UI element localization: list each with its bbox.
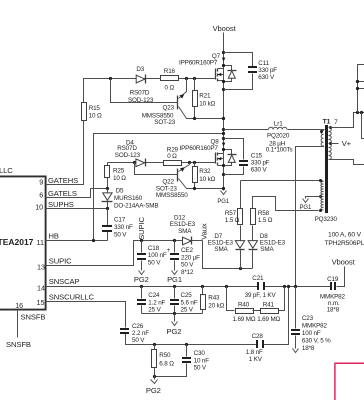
svg-text:RS07D: RS07D	[117, 145, 137, 152]
svg-text:0 Ω: 0 Ω	[165, 85, 175, 92]
svg-text:SNSCURLLC: SNSCURLLC	[49, 293, 95, 302]
svg-text:1.69 MΩ: 1.69 MΩ	[233, 316, 256, 323]
IC U1 TEA2017	[0, 176, 46, 309]
svg-text:C30: C30	[194, 350, 206, 357]
capacitor C21	[245, 275, 277, 299]
svg-text:630 V, 5 %: 630 V, 5 %	[302, 337, 331, 344]
svg-text:100 nF: 100 nF	[148, 252, 167, 259]
svg-text:50 V: 50 V	[148, 259, 161, 266]
svg-text:R16: R16	[164, 68, 176, 75]
svg-text:SOD-123: SOD-123	[115, 152, 141, 159]
pin 9 GATEHS	[39, 176, 78, 186]
svg-text:220 µF: 220 µF	[181, 254, 200, 261]
transistor Q23	[111, 79, 224, 127]
svg-text:R41: R41	[263, 302, 275, 309]
pin 15 SNSCURLLC	[37, 293, 95, 307]
resistor R58	[251, 197, 319, 241]
svg-text:18*8: 18*8	[302, 345, 315, 352]
svg-text:R43: R43	[208, 295, 220, 302]
node Q23 base tap dot	[109, 77, 112, 80]
wire secondary top out	[329, 113, 364, 128]
node secondary out dots	[356, 111, 359, 114]
resistor R41	[253, 287, 285, 323]
svg-text:18*8: 18*8	[327, 307, 340, 314]
svg-text:DO-214AA-SMB: DO-214AA-SMB	[114, 202, 158, 209]
transistor Q8 IPP60R160P7	[180, 137, 237, 176]
capacitor C11	[224, 53, 278, 90]
svg-text:C18: C18	[148, 245, 160, 252]
svg-text:SNSFB: SNSFB	[6, 340, 31, 349]
svg-text:R25: R25	[113, 167, 125, 174]
svg-text:V+: V+	[342, 139, 352, 148]
wire half-bridge spine	[223, 33, 225, 191]
resistor R25	[105, 163, 127, 191]
svg-text:SUPIC: SUPIC	[137, 216, 146, 239]
svg-text:PG2: PG2	[146, 386, 161, 395]
svg-text:50 V: 50 V	[194, 364, 207, 371]
wire Vaux drop to rectifier	[203, 241, 253, 269]
svg-text:SMA: SMA	[260, 246, 274, 253]
svg-text:330 pF: 330 pF	[258, 67, 277, 74]
capacitor C18	[137, 241, 167, 271]
svg-text:13: 13	[37, 263, 45, 272]
svg-text:630 V: 630 V	[258, 74, 275, 81]
wire HB riser to half-bridge	[94, 134, 224, 241]
svg-text:0.1*100Ts: 0.1*100Ts	[266, 147, 293, 154]
ground PG2 under divider	[167, 314, 182, 337]
svg-text:GATELS: GATELS	[48, 189, 77, 198]
svg-text:630 V: 630 V	[251, 167, 268, 174]
node R21/Q23 to source dot	[222, 117, 225, 120]
svg-text:2.2 nF: 2.2 nF	[132, 330, 149, 337]
ground arrow under C23	[293, 349, 299, 353]
svg-text:R32: R32	[199, 168, 211, 175]
wire SNSCAP rail	[46, 267, 345, 287]
node Q22 collector to source dot	[222, 187, 225, 190]
svg-text:SUPIC: SUPIC	[49, 257, 72, 266]
node R50 bottom dot	[153, 375, 156, 378]
svg-text:MURS160: MURS160	[114, 195, 143, 202]
wire D4 row	[108, 162, 216, 164]
diode D7	[208, 233, 245, 268]
svg-text:R50: R50	[159, 352, 171, 359]
wire SNSFB	[17, 310, 19, 338]
capacitor C25	[170, 287, 198, 314]
svg-text:6.8 Ω: 6.8 Ω	[159, 360, 174, 367]
svg-text:Vboost: Vboost	[213, 24, 237, 33]
svg-text:1.69 MΩ: 1.69 MΩ	[257, 316, 280, 323]
svg-text:100 nF: 100 nF	[302, 330, 321, 337]
svg-text:IPP60R160P7: IPP60R160P7	[179, 60, 218, 67]
svg-text:15: 15	[37, 298, 45, 307]
svg-text:C21: C21	[252, 275, 264, 282]
svg-text:10 kΩ: 10 kΩ	[199, 176, 215, 183]
resistor R16	[161, 68, 179, 92]
resistor R29	[164, 146, 182, 165]
svg-text:330 nF: 330 nF	[114, 224, 133, 231]
svg-text:1.2 nF: 1.2 nF	[148, 299, 165, 306]
svg-text:HB: HB	[49, 232, 59, 241]
node SUPIC rail dots	[140, 239, 143, 242]
svg-text:R21: R21	[199, 92, 211, 99]
pin 13 SUPIC	[37, 257, 72, 272]
svg-text:C26: C26	[132, 323, 144, 330]
wire R57 top row to transformer	[241, 181, 324, 182]
wire primary return to sense rail	[296, 130, 324, 287]
svg-text:50 V: 50 V	[114, 231, 127, 238]
resistor R57	[225, 181, 243, 241]
resistor R15	[82, 103, 103, 121]
svg-text:SNSFB: SNSFB	[21, 312, 46, 321]
svg-text:PG2: PG2	[167, 327, 182, 336]
pin 10 SUPHS	[35, 200, 73, 212]
ground PG1 under Q8	[217, 191, 229, 206]
capacitor C17	[102, 209, 133, 241]
node gate LS dots	[188, 161, 191, 164]
svg-text:11: 11	[37, 238, 44, 247]
svg-text:1 KV: 1 KV	[249, 356, 263, 363]
node half-bridge dots	[222, 128, 225, 131]
wire SUPHS	[46, 208, 108, 210]
resistor R21	[193, 79, 216, 121]
svg-text:14: 14	[37, 283, 45, 292]
svg-text:0 Ω: 0 Ω	[167, 153, 177, 160]
node lower rail dots	[153, 343, 156, 346]
svg-text:10 kΩ: 10 kΩ	[199, 101, 215, 108]
diode D12	[170, 214, 196, 245]
diode D3	[128, 66, 154, 104]
svg-text:8*12: 8*12	[181, 269, 194, 276]
svg-text:SNSCAP: SNSCAP	[49, 277, 80, 286]
svg-text:D3: D3	[136, 66, 144, 73]
capacitor C15	[224, 139, 270, 175]
diode D5	[102, 188, 159, 210]
ground PG2 under C18	[134, 271, 149, 284]
svg-text:PQ2020: PQ2020	[267, 133, 290, 140]
svg-text:10 Ω: 10 Ω	[89, 112, 102, 119]
svg-text:C28: C28	[252, 333, 264, 340]
svg-text:10 nF: 10 nF	[194, 357, 210, 364]
svg-text:Q23: Q23	[163, 104, 175, 111]
winding T1 primary top	[321, 131, 323, 147]
diode D4	[115, 139, 146, 166]
svg-text:25 V: 25 V	[148, 306, 161, 313]
svg-text:R58: R58	[258, 210, 270, 217]
resistor R32	[193, 163, 216, 191]
svg-text:Vboost: Vboost	[332, 258, 356, 267]
pin 14 SNSCAP	[37, 277, 79, 292]
wire secondary bottom out	[329, 160, 364, 165]
winding T1 aux lower	[321, 182, 324, 210]
transistor Q7 IPP60R160P7	[179, 51, 237, 91]
svg-text:5.6 nF: 5.6 nF	[181, 299, 198, 306]
svg-text:PG1: PG1	[217, 199, 229, 205]
wire SNSCURLLC	[46, 287, 289, 345]
svg-text:SMA: SMA	[178, 228, 192, 235]
svg-text:50 V: 50 V	[181, 262, 194, 269]
capacitor C19	[320, 276, 346, 314]
wire R15 top to D3 row	[84, 79, 216, 103]
svg-text:TPH2R506PL: TPH2R506PL	[325, 240, 364, 247]
svg-text:D5: D5	[116, 188, 124, 195]
resistor R40	[227, 287, 256, 323]
svg-text:RS07D: RS07D	[130, 90, 150, 97]
svg-text:CE2: CE2	[181, 247, 193, 254]
svg-text:GATEHS: GATEHS	[48, 176, 78, 185]
svg-text:6: 6	[39, 191, 43, 200]
svg-text:1.5 Ω: 1.5 Ω	[225, 217, 240, 224]
svg-text:100 A, 60 V: 100 A, 60 V	[328, 232, 362, 239]
svg-text:SUPHS: SUPHS	[48, 200, 74, 209]
red highlight box	[335, 363, 364, 400]
svg-text:25 V: 25 V	[181, 306, 194, 313]
wire V+ tap	[331, 143, 339, 145]
wire C24/C25/R43 bottom row	[142, 313, 203, 315]
transistor Q22	[135, 163, 224, 200]
pin 11 HB	[37, 232, 59, 248]
svg-text:1.5 Ω: 1.5 Ω	[258, 217, 273, 224]
capacitor C23	[291, 287, 331, 352]
node Q22 base tap dot	[133, 161, 136, 164]
svg-text:T1: T1	[323, 119, 331, 126]
winding T1 secondary	[329, 128, 332, 160]
svg-text:IPP60R160P7: IPP60R160P7	[180, 145, 219, 152]
ground PG1 under CE2	[167, 271, 182, 284]
svg-text:39 pF, 1 KV: 39 pF, 1 KV	[245, 292, 277, 299]
ground PG2 under R50	[146, 377, 161, 396]
svg-text:330 pF: 330 pF	[251, 160, 270, 167]
capacitor C28	[246, 333, 264, 363]
svg-text:C11: C11	[258, 60, 269, 67]
capacitor CE2	[167, 241, 201, 276]
svg-text:MMKP82: MMKP82	[302, 323, 328, 330]
wire GATEHS	[46, 121, 84, 185]
svg-text:MMSS8550: MMSS8550	[156, 192, 188, 199]
wire GATELS	[46, 189, 108, 198]
svg-text:10 Ω: 10 Ω	[113, 175, 126, 182]
node aux winding dots	[319, 179, 322, 182]
wire HB pin to C17	[46, 240, 108, 242]
svg-text:20 kΩ: 20 kΩ	[208, 302, 224, 309]
svg-text:50 V: 50 V	[132, 337, 145, 344]
node D7 cathode dot	[239, 267, 242, 270]
svg-text:SOT-23: SOT-23	[154, 119, 175, 126]
svg-text:LLC: LLC	[0, 166, 13, 175]
node PG2 drop dot	[173, 312, 176, 315]
capacitor C30	[155, 345, 210, 377]
svg-text:7: 7	[334, 119, 338, 126]
transformer T1	[315, 119, 339, 223]
svg-text:C24: C24	[148, 292, 160, 299]
svg-text:C25: C25	[181, 292, 193, 299]
svg-text:Lr1: Lr1	[274, 120, 283, 127]
capacitor C26	[120, 323, 149, 344]
diode D8	[248, 233, 286, 268]
svg-text:C17: C17	[114, 217, 126, 224]
ground PG1 aux tap	[300, 199, 312, 212]
svg-text:C15: C15	[251, 153, 263, 160]
svg-text:TEA2017: TEA2017	[0, 237, 34, 247]
svg-text:16: 16	[15, 301, 23, 310]
node HB junction dot	[92, 239, 95, 242]
svg-text:PG1: PG1	[300, 205, 312, 211]
wire SUPIC	[46, 241, 203, 266]
svg-text:PQ3230: PQ3230	[315, 216, 338, 223]
svg-text:R40: R40	[238, 302, 250, 309]
resistor R43	[201, 287, 225, 314]
svg-text:+: +	[167, 247, 171, 254]
node top-right stub dots	[356, 80, 359, 83]
svg-text:R57: R57	[225, 210, 237, 217]
svg-text:PG1: PG1	[167, 275, 182, 284]
node gate HS dots	[185, 77, 188, 80]
svg-text:C19: C19	[327, 276, 339, 283]
wire top-right stub network	[358, 65, 364, 139]
pin 16 SNSFB	[15, 301, 45, 321]
svg-text:PG2: PG2	[134, 275, 149, 284]
capacitor C24	[137, 287, 166, 314]
wire aux center tap	[306, 197, 322, 199]
svg-text:9: 9	[39, 178, 43, 187]
transformer part labels	[325, 232, 364, 247]
svg-text:10: 10	[35, 203, 43, 212]
node sense rail dots	[140, 285, 143, 288]
node secondary dots	[329, 126, 332, 129]
svg-text:C23: C23	[302, 315, 314, 322]
svg-text:Vaux: Vaux	[199, 223, 208, 240]
resistor R50	[152, 345, 175, 377]
pin 6 GATELS	[39, 189, 77, 200]
inductor Lr1	[224, 120, 325, 153]
svg-text:R15: R15	[89, 105, 101, 112]
svg-text:SMA: SMA	[214, 246, 228, 253]
